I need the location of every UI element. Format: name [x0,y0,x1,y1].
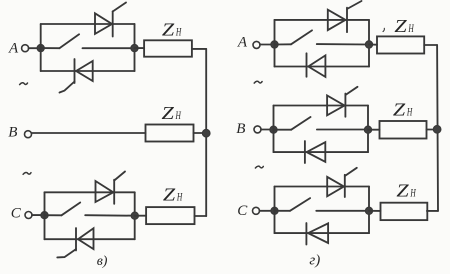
wire loop C top branch [45,191,135,193]
wire C terminal to junction (right) [260,210,272,212]
svg-text:H: H [410,185,417,199]
switch S1 wire [41,47,60,49]
wire A terminal to junction (right) [260,44,272,46]
wire junction to load A (right diagram) [369,44,377,46]
terminal A (left) [22,45,29,52]
junction B-left (right diagram) [270,126,277,133]
switch S3 fixed wire [317,43,369,45]
svg-text:Z: Z [396,180,409,200]
wire loop A top branch [41,23,135,25]
wire loop B right vertical (right diagram) [367,106,369,153]
node common (right) [433,125,441,133]
wire load B to bus (right) [427,129,437,131]
switch S4 blade [291,117,310,130]
wire B terminal to junction (right) [261,129,271,131]
wire A terminal to junction [29,47,38,49]
wire junction to load B (right diagram) [368,129,380,131]
source symbol ~ (right bottom) [255,166,263,168]
switch S2 blade [62,203,81,216]
svg-text:A: A [8,41,19,57]
wire loop C left vertical (right diagram) [274,187,276,234]
svg-text:в): в) [97,254,108,269]
wire bus (right) [436,45,439,211]
wire loop A top branch (right diagram) [275,19,370,21]
wire load B to bus [194,132,207,134]
wire junction to load C [135,215,146,217]
wire loop C top branch (right diagram) [275,186,370,188]
switch S5 fixed wire [316,210,369,212]
svg-text:Z: Z [163,185,176,205]
junction A-left [37,44,44,51]
svg-text:H: H [176,190,183,204]
speck artifact [383,28,384,31]
wire loop B left vertical (right diagram) [273,106,275,153]
svg-text:H: H [408,21,415,35]
wire loop A right vertical (right diagram) [368,20,370,67]
junction B-right (right diagram) [364,126,371,133]
wire loop A right vertical [134,24,136,71]
wire loop A bottom branch (right diagram) [275,66,370,68]
diode VD2 [305,141,325,163]
svg-text:H: H [175,108,182,122]
switch S2 wire [45,214,62,216]
switch S4 fixed wire [317,129,368,131]
wire C terminal to junction [32,214,42,216]
svg-text:Z: Z [162,103,175,123]
source symbol ~ (left top) [20,83,28,85]
load Zн phase C (right) [381,203,428,220]
svg-text:Z: Z [394,16,407,36]
svg-text:C: C [237,203,248,219]
wire load A to bus (right) [424,44,437,46]
switch S3 wire [275,43,292,45]
source symbol ~ (right top) [254,81,262,83]
thyristor VS6 [327,87,357,117]
svg-text:H: H [406,104,413,118]
wire B terminal to load [32,132,146,134]
wire bus (left) [205,49,207,216]
wire load C to bus (right) [427,210,438,212]
diode VD1 [307,53,326,77]
wire load A to bus [192,48,206,50]
load Zн phase B (left) [146,125,194,142]
svg-text:C: C [11,206,22,222]
wire loop C left vertical [44,192,46,239]
junction C-left (right diagram) [271,207,278,214]
svg-text:H: H [175,25,182,39]
wire junction to load A [135,47,145,49]
thyristor VS3 [96,172,126,204]
switch S2 fixed wire [85,214,135,217]
switch S4 wire [274,129,292,131]
wire loop B top branch (right diagram) [274,105,369,107]
load Zн phase A (left) [144,40,192,56]
thyristor VS5 [328,1,362,32]
svg-text:Z: Z [162,20,175,40]
junction C-right [131,212,138,219]
wire loop C right vertical [134,192,136,239]
wire loop C bottom branch (right diagram) [275,232,370,234]
load Zн phase C (left) [146,207,194,224]
wire loop B bottom branch (right diagram) [274,151,369,153]
source symbol ~ (left bottom) [23,172,31,174]
thyristor VS7 [327,168,357,197]
wire loop C bottom branch [45,238,135,240]
terminal A (right) [253,41,260,48]
wire load C to bus [195,215,207,217]
wire loop A left vertical (right diagram) [274,20,276,67]
wire loop C right vertical (right diagram) [368,187,370,234]
terminal C (left) [25,212,32,219]
switch S1 fixed wire [83,47,135,49]
node common (left) [202,129,210,137]
wire junction to load C (right diagram) [369,210,381,212]
wire loop A bottom branch [41,70,135,72]
svg-text:A: A [237,34,248,50]
switch S5 wire [275,210,291,212]
thyristor VS1 [95,3,126,37]
junction C-left [41,212,48,219]
load Zн phase A (right) [377,36,424,53]
thyristor VS2 [60,59,93,93]
svg-text:г): г) [309,252,320,268]
diode VD3 [306,223,328,245]
switch S3 blade [291,30,312,44]
switch S1 blade [59,34,79,48]
junction C-right (right diagram) [365,207,372,214]
junction A-right [131,44,138,51]
switch S5 blade [290,198,310,211]
load Zн phase B (right) [380,121,427,139]
terminal C (right) [253,207,260,214]
svg-text:Z: Z [393,99,406,119]
terminal B (left) [25,131,32,138]
junction A-left (right diagram) [271,41,278,48]
svg-text:B: B [236,121,245,137]
wire loop A left vertical [40,24,42,71]
svg-text:B: B [8,125,17,141]
thyristor VS4 [57,228,93,257]
terminal B (right) [254,126,261,133]
junction A-right (right diagram) [365,41,372,48]
